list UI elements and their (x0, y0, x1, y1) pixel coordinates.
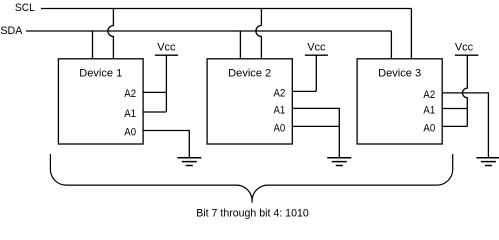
power Vcc symbol 2 vertical (315, 55, 317, 91)
svg-text:A1: A1 (423, 104, 435, 116)
device U1 box (58, 59, 143, 144)
wire SDA drop to Device 2 (239, 31, 241, 59)
power Vcc symbol 1 vertical (165, 55, 167, 112)
power Vcc symbol 3 vertical with hop over A2 stub (463, 55, 468, 126)
svg-text:A1: A1 (274, 104, 286, 116)
svg-text:A2: A2 (124, 88, 136, 100)
svg-text:A0: A0 (274, 122, 286, 134)
device U3 box (357, 59, 442, 144)
svg-text:SDA: SDA (0, 25, 23, 37)
svg-text:A0: A0 (423, 122, 435, 134)
wire U2 A2 stub to Vcc rail (292, 90, 316, 92)
wire SCL drop to Device 1 with hop over SDA (108, 9, 113, 59)
wire U1 A0 stub to ground (143, 131, 189, 158)
wire U3 A2 stub to ground (442, 93, 488, 158)
power Vcc symbol 1 bar (155, 54, 178, 56)
svg-text:Vcc: Vcc (157, 42, 176, 54)
svg-text:Device 3: Device 3 (378, 68, 421, 80)
annotation brace spanning devices (50, 154, 452, 203)
power Vcc symbol 3 bar (455, 54, 478, 56)
ground symbol 1 (177, 158, 201, 166)
svg-text:Vcc: Vcc (455, 42, 474, 54)
wire SDA drop to Device 3 (390, 31, 392, 59)
wire U2 A1 stub to ground rail (292, 108, 339, 157)
wire SCL drop to Device 2 with hop over SDA (256, 9, 262, 59)
wire U3 A1 stub to Vcc rail (442, 108, 467, 110)
svg-text:SCL: SCL (15, 2, 35, 14)
wire SCL bus (41, 8, 411, 10)
wire U1 A2 stub to Vcc rail (143, 91, 166, 93)
svg-text:Bit 7 through bit 4: 1010: Bit 7 through bit 4: 1010 (196, 208, 309, 220)
svg-text:Vcc: Vcc (307, 42, 326, 54)
wire SCL drop to Device 3 (410, 9, 412, 59)
wire U3 A0 stub to Vcc rail (442, 125, 467, 127)
power Vcc symbol 2 bar (305, 54, 328, 56)
svg-text:A0: A0 (124, 126, 136, 138)
wire SDA drop to Device 1 (92, 31, 94, 59)
ground symbol 2 (327, 158, 351, 166)
svg-text:A2: A2 (423, 89, 435, 101)
device U2 box (207, 59, 292, 144)
ground symbol 3 (476, 158, 499, 166)
svg-text:Device 2: Device 2 (228, 68, 271, 80)
svg-text:A2: A2 (274, 87, 286, 99)
wire U2 A0 stub to ground rail (292, 125, 339, 127)
wire SDA bus (26, 30, 391, 32)
wire U1 A1 stub to Vcc rail (143, 111, 166, 113)
svg-text:Device 1: Device 1 (79, 68, 122, 80)
svg-text:A1: A1 (124, 108, 136, 120)
